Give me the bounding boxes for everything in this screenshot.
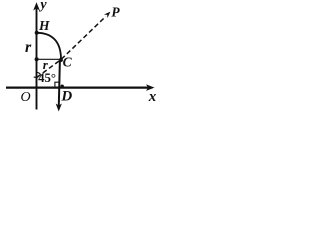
y-axis arrowhead [33,2,40,10]
y-axis [36,9,38,110]
center M dot on y-axis [35,57,39,61]
point C dot [59,58,63,62]
horizontal radius line M to C [37,58,61,60]
arc from H to C (quarter circle) [37,33,61,60]
background [0,0,161,115]
angle arc mark at V [36,72,40,75]
point D dot [61,85,64,88]
svg-text:y: y [38,0,47,13]
tick at 45-degree vertex V on y-axis [34,76,37,78]
svg-text:r: r [25,39,32,56]
svg-text:O: O [21,90,31,105]
point H dot [35,31,39,35]
right-angle square mark at D [55,82,59,86]
x-axis arrowhead [146,84,155,91]
vertical arrow from C down through D [59,60,60,106]
svg-text:45°: 45° [38,71,56,85]
down arrowhead at bottom [56,104,62,112]
x-axis [6,86,148,88]
svg-text:x: x [148,89,157,105]
svg-text:P: P [111,5,120,20]
svg-text:D: D [60,89,72,105]
arrowhead at P end of dashed ray [104,12,111,19]
svg-text:H: H [38,18,50,33]
dashed ray from V through C toward P [37,16,106,77]
